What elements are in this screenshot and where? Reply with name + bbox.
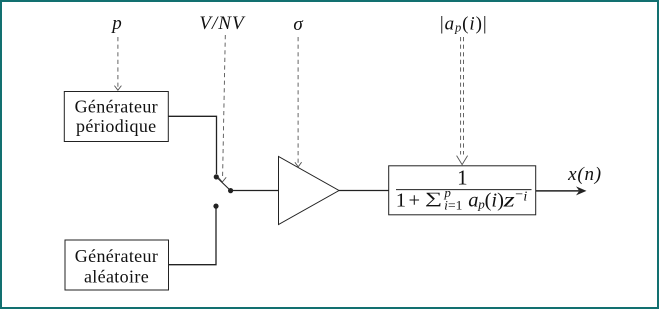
block: LPC synthesis filter (389, 166, 536, 215)
block: random generator (65, 240, 169, 290)
amplifier triangle (279, 157, 340, 225)
svg-text:+: + (409, 190, 421, 212)
svg-text:σ: σ (293, 14, 303, 35)
dashed control arrow |ap(i)| (457, 37, 468, 165)
svg-text:|ap(i)|: |ap(i)| (440, 14, 488, 35)
svg-text:périodique: périodique (76, 116, 156, 136)
svg-text:a: a (468, 190, 478, 212)
svg-text:i=1: i=1 (444, 197, 462, 212)
svg-text:z: z (502, 190, 514, 212)
svg-text:1: 1 (457, 165, 468, 189)
svg-text:i: i (523, 189, 527, 204)
dashed control arrow V/NV (219, 35, 227, 182)
output wire with arrow (536, 190, 579, 192)
denominator 1 + sum ap(i) z^-i (396, 185, 528, 213)
switch arm (216, 177, 230, 191)
svg-text:V/NV: V/NV (199, 13, 246, 34)
wire from random generator to switch bottom contact (169, 208, 217, 265)
svg-text:aléatoire: aléatoire (84, 266, 149, 286)
fraction bar (396, 189, 532, 191)
wire switch pole to amplifier (231, 190, 279, 192)
block: periodic generator (64, 92, 168, 142)
dashed control arrow sigma (295, 37, 302, 167)
svg-text:x(n): x(n) (567, 164, 602, 185)
dashed control arrow p (114, 37, 121, 90)
wire from periodic generator to switch top contact (168, 116, 216, 174)
switch pole node (228, 188, 233, 193)
switch bottom contact node (213, 204, 218, 209)
svg-text:1: 1 (396, 190, 406, 212)
wire amplifier to filter (339, 190, 389, 192)
svg-text:p: p (110, 13, 122, 34)
svg-text:Générateur: Générateur (75, 246, 158, 266)
svg-text:(i): (i) (485, 190, 504, 212)
svg-text:−: − (515, 187, 523, 202)
svg-text:Générateur: Générateur (75, 96, 158, 116)
svg-text:∑: ∑ (425, 190, 442, 207)
switch top contact node (214, 174, 219, 179)
